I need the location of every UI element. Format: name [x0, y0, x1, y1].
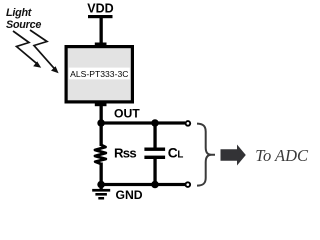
pin stub top U1 [95, 43, 107, 48]
svg-text:C: C [168, 146, 178, 161]
wire bottom GND rail [100, 183, 185, 186]
light ray arrow 1 [13, 31, 41, 68]
junction dot GND Rss [97, 181, 105, 189]
svg-text:VDD: VDD [87, 2, 113, 16]
svg-text:To ADC: To ADC [255, 146, 309, 165]
wire CL branch bottom [153, 158, 156, 186]
wire Rss to GND rail [100, 163, 103, 186]
pin stub bottom U1 [95, 102, 107, 107]
phototransistor U1 body [66, 47, 132, 102]
node OUT junction dot [97, 119, 105, 127]
svg-text:Light: Light [6, 7, 32, 19]
svg-text:Rss: Rss [114, 145, 136, 160]
capacitor CL bottom plate [144, 156, 165, 159]
wire CL branch top [153, 123, 156, 149]
terminal OUT open circle [186, 121, 191, 126]
light source label [6, 7, 41, 31]
svg-text:GND: GND [116, 188, 143, 202]
terminal GND open circle [186, 182, 191, 187]
junction dot GND CL [151, 181, 159, 189]
capacitor CL top plate [144, 148, 165, 151]
label strip ALS-PT333-3C [69, 68, 130, 80]
wire VDD to U1 [100, 16, 103, 45]
arrow To ADC [221, 145, 246, 166]
wire OUT rail [100, 121, 185, 124]
svg-text:ALS-PT333-3C: ALS-PT333-3C [70, 69, 128, 79]
VDD power rail [88, 15, 113, 18]
wire OUT to resistor Rss [100, 123, 103, 146]
brace to ADC [197, 124, 215, 186]
svg-text:Source: Source [6, 19, 41, 31]
resistor Rss [95, 145, 106, 164]
light ray arrow 2 [30, 30, 59, 73]
svg-text:L: L [177, 150, 183, 161]
ground [92, 185, 110, 200]
CL label [168, 146, 184, 161]
wire U1 to OUT node [100, 103, 103, 124]
svg-text:OUT: OUT [114, 107, 140, 121]
junction dot OUT to CL [151, 119, 159, 127]
